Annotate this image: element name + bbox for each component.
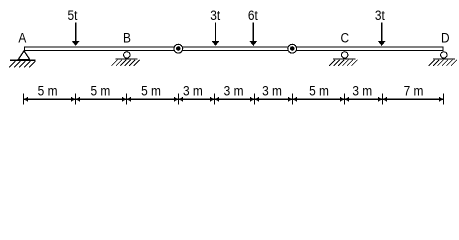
support C (roller) <box>329 52 357 66</box>
dimension main line <box>24 98 443 100</box>
hinge 2 <box>288 44 297 53</box>
svg-text:5 m: 5 m <box>309 83 329 99</box>
svg-text:5 m: 5 m <box>38 83 58 99</box>
svg-text:3 m: 3 m <box>352 83 372 99</box>
dimension labels <box>38 83 424 99</box>
svg-text:C: C <box>340 30 349 46</box>
svg-text:3 m: 3 m <box>262 83 282 99</box>
svg-text:3 m: 3 m <box>224 83 244 99</box>
load 5t arrow <box>72 23 79 46</box>
support D (roller) <box>429 52 457 66</box>
svg-text:A: A <box>18 30 26 46</box>
svg-text:5 m: 5 m <box>90 83 110 99</box>
svg-text:D: D <box>441 30 450 46</box>
svg-text:5t: 5t <box>68 7 78 23</box>
load 3t arrow (second) <box>378 23 385 46</box>
svg-text:7 m: 7 m <box>404 83 424 99</box>
load 6t arrow <box>250 23 257 46</box>
svg-text:5 m: 5 m <box>141 83 161 99</box>
load 3t arrow (first) <box>212 23 219 46</box>
svg-text:3t: 3t <box>210 7 220 23</box>
svg-text:B: B <box>123 30 131 46</box>
hinge 1 <box>174 44 183 53</box>
dimension arrowheads <box>24 97 443 102</box>
dimension ticks <box>24 93 444 104</box>
svg-text:3 m: 3 m <box>183 83 203 99</box>
support B (roller) <box>111 52 139 66</box>
beam AD <box>25 47 444 51</box>
support A (pinned) <box>9 51 36 68</box>
svg-text:3t: 3t <box>375 7 385 23</box>
svg-text:6t: 6t <box>248 7 258 23</box>
